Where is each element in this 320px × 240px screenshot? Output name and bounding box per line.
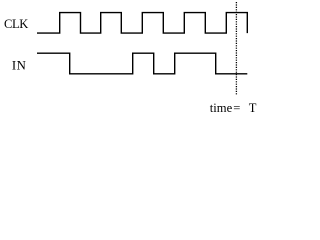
svg-text:IN: IN [12,59,27,73]
time marker dotted line [235,2,237,95]
signal IN waveform [37,53,247,74]
svg-text:CLK: CLK [4,17,28,31]
svg-text:time=T: time=T [210,101,257,115]
signal CLK waveform [37,13,247,33]
